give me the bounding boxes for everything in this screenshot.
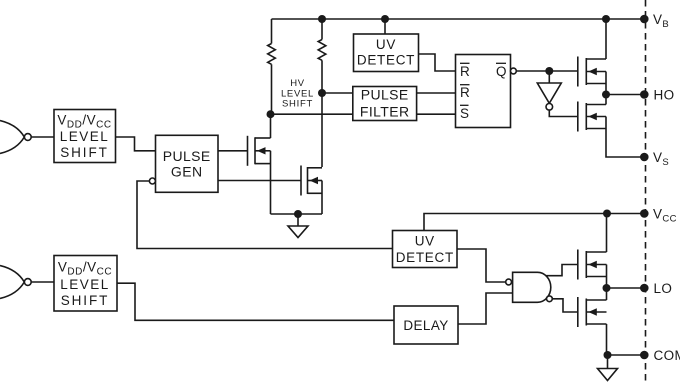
wire Q1 source down xyxy=(270,151,272,214)
wire nand out to M3 gate xyxy=(546,265,578,276)
wire delay out to nand xyxy=(458,293,513,324)
svg-text:DETECT: DETECT xyxy=(357,53,415,68)
transistor Q1 (HV level shift left) xyxy=(248,136,271,166)
latch U3 (RS latch) xyxy=(456,55,511,128)
svg-text:PULSE: PULSE xyxy=(163,148,211,164)
pin dot COM xyxy=(640,351,649,360)
transistor Q2 (HV level shift right) xyxy=(301,166,322,196)
transistor M4 (low side N) xyxy=(578,297,607,327)
chip boundary dashed line xyxy=(645,0,647,382)
svg-text:LEVEL: LEVEL xyxy=(60,129,110,144)
node dot R1 tap xyxy=(267,110,275,118)
svg-text:GEN: GEN xyxy=(171,164,203,180)
delay box xyxy=(394,306,458,344)
svg-text:Q: Q xyxy=(496,64,507,79)
inverter U4 xyxy=(537,83,561,103)
wire UV2 out to nand xyxy=(457,249,506,282)
wire M3 drain to VCC xyxy=(606,214,608,253)
pin dot VB xyxy=(640,15,649,24)
svg-text:DETECT: DETECT xyxy=(396,250,454,265)
wire Q2 source down xyxy=(321,181,323,215)
svg-text:SHIFT: SHIFT xyxy=(282,99,313,110)
wire source bus to ground xyxy=(271,213,323,215)
wire inverter out to M2 gate xyxy=(549,110,578,116)
wire M2 source to VS xyxy=(606,117,644,158)
svg-text:SHIFT: SHIFT xyxy=(61,293,110,308)
pin dot LO xyxy=(640,284,649,293)
pin dot VS xyxy=(640,153,649,162)
wire M2 drain to HO node xyxy=(605,95,607,105)
svg-text:UV: UV xyxy=(376,37,396,52)
ground G (VSS) xyxy=(288,214,308,238)
label pulse gen text xyxy=(163,148,211,180)
nand gate U6 xyxy=(506,272,553,302)
pulse filter box xyxy=(353,87,417,121)
node dot HO xyxy=(602,91,610,99)
svg-text:HO: HO xyxy=(654,88,675,103)
svg-text:R: R xyxy=(460,85,470,100)
node dot R2 tap xyxy=(318,89,326,97)
wire UV1 out to latch R1 xyxy=(419,54,456,71)
wire node Q to inverter xyxy=(548,71,550,83)
svg-text:R: R xyxy=(460,64,470,79)
wire M1 source to HO xyxy=(605,72,607,95)
wire pulse filter out to latch R2 xyxy=(417,92,456,94)
wire UV1 top feed xyxy=(384,19,386,34)
svg-text:HV: HV xyxy=(290,78,305,89)
svg-text:PULSE: PULSE xyxy=(361,87,409,103)
pulse gen inverted input bubble xyxy=(149,178,155,184)
pulse gen box xyxy=(156,135,219,192)
label LS2 text xyxy=(58,260,112,309)
wire LS1 out to pulse gen xyxy=(116,137,156,151)
svg-text:SHIFT: SHIFT xyxy=(60,145,109,160)
wire M1 drain to VB xyxy=(605,19,607,59)
svg-text:LEVEL: LEVEL xyxy=(60,277,110,292)
wire G2 to level shift 2 xyxy=(31,281,54,283)
node dot rail B2 xyxy=(381,15,389,23)
resistor R1 xyxy=(268,19,276,114)
VB rail wire xyxy=(272,18,645,20)
node dot rail B3 xyxy=(602,15,610,23)
latch output bubble xyxy=(511,68,517,74)
transistor M2 (high side N) xyxy=(578,102,606,132)
wire R1 bottom to Q1 drain xyxy=(270,114,272,138)
node dot VCC xyxy=(603,210,611,218)
transistor M3 (low side P) xyxy=(578,250,607,280)
node dot ground mid xyxy=(294,210,302,218)
wire M4 drain to LO node xyxy=(606,288,608,300)
node dot Qbar xyxy=(545,67,553,75)
label pulse filter text xyxy=(360,87,410,120)
label LS1 text xyxy=(57,113,111,161)
label HV level shift text xyxy=(281,78,314,110)
svg-text:LO: LO xyxy=(654,281,673,296)
svg-text:S: S xyxy=(460,106,469,121)
label UV1 text xyxy=(357,37,415,68)
wire R2 bottom to Q2 drain xyxy=(321,93,323,167)
label UV2 text xyxy=(396,234,454,266)
wire node A to filter input xyxy=(271,113,353,115)
wire nand inverted out to M4 gate xyxy=(552,299,578,312)
wire pulse gen out to Q1 gate xyxy=(218,150,248,152)
node dot rail B1 xyxy=(318,15,326,23)
level shift box LS2 xyxy=(54,256,117,312)
UV detect box U2 (high side) xyxy=(354,34,419,72)
svg-text:FILTER: FILTER xyxy=(360,103,410,119)
input gate G1 (HIN) xyxy=(0,121,31,154)
wire pulse gen out to Q2 gate xyxy=(218,180,301,182)
ground COM symbol xyxy=(598,355,618,381)
level shift box LS1 xyxy=(54,110,116,163)
wire pulse filter out to latch S xyxy=(417,113,456,115)
UV detect box U5 (low side) xyxy=(393,231,458,268)
transistor M1 (high side P) xyxy=(578,57,606,87)
wire G1 to level shift 1 xyxy=(31,136,54,138)
wire Qbar to M1 gate xyxy=(516,70,578,72)
wire LO node to pin xyxy=(607,287,645,289)
node dot COM xyxy=(604,351,612,359)
wire HO node to pin xyxy=(606,94,644,96)
latch overbars xyxy=(460,63,506,105)
svg-text:DELAY: DELAY xyxy=(403,318,448,333)
wire M3 source to LO xyxy=(606,265,608,289)
pin dot VCC xyxy=(640,209,649,218)
wire LS2 out to delay xyxy=(117,283,394,320)
svg-text:UV: UV xyxy=(415,234,435,249)
resistor R2 xyxy=(318,19,326,93)
wire M4 source to COM xyxy=(606,324,608,355)
node dot LO xyxy=(603,284,611,292)
wire UV2 to pulse gen bubble xyxy=(137,181,393,249)
input gate G2 (LIN) xyxy=(0,266,31,299)
wire node B to pulse filter input xyxy=(322,92,353,94)
VCC rail wire xyxy=(424,214,644,231)
pin dot HO xyxy=(640,90,649,99)
wire COM node to pin xyxy=(608,354,645,356)
svg-text:COM: COM xyxy=(654,348,680,363)
